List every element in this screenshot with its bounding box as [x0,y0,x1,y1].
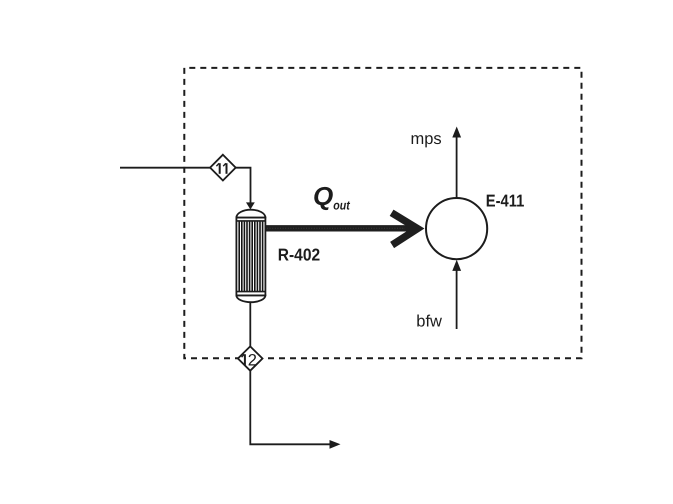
svg-text:bfw: bfw [416,312,442,330]
wire: inlet stream 11 horizontal [120,167,210,169]
svg-text:mps: mps [411,130,442,148]
heat exchanger E-411 circle [426,198,487,259]
arrowhead bfw into circle [452,260,461,271]
svg-text:E-411: E-411 [486,190,525,210]
svg-text:R-402: R-402 [278,245,320,265]
stream diamond 12 [238,346,263,370]
stream diamond 11 [210,155,236,181]
arrowhead mps up [452,127,461,138]
arrowhead outlet stream right [330,440,341,449]
wire: diamond 12 down and out right [250,371,330,445]
Q_out heat arrow (thick) [266,213,418,245]
tube-bundle hatching [239,221,262,292]
reactor R-402 vessel [236,210,265,302]
mask gap in bottom border where stream diamond 12 sits [238,355,263,362]
arrowhead into reactor top [246,202,255,209]
svg-text:2: 2 [248,352,257,370]
wire: mps outlet up [456,137,458,199]
dashed system boundary [184,68,581,358]
wire: diamond 11 to reactor inlet elbow [236,168,251,204]
wire: reactor bottom to diamond 12 [249,303,251,347]
wire: bfw inlet up [456,270,458,329]
